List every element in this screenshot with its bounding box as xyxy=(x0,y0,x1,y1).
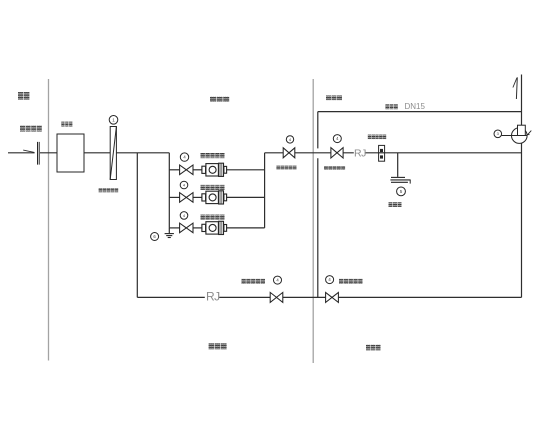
svg-text:1: 1 xyxy=(112,117,115,122)
svg-text:RJ: RJ xyxy=(206,289,220,303)
svg-text:RJ: RJ xyxy=(354,147,366,159)
svg-text:5: 5 xyxy=(400,189,403,194)
svg-text:DN15: DN15 xyxy=(405,102,426,111)
